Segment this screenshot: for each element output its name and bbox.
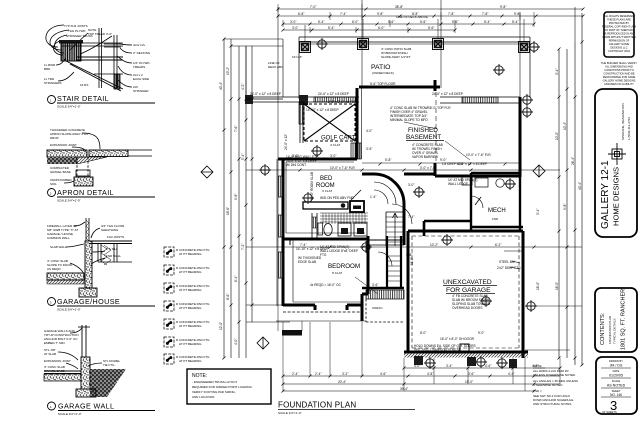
contents box [595, 288, 637, 352]
svg-text:7'-0": 7'-0" [310, 5, 316, 9]
svg-text:SCALE 3/4"=1'-0": SCALE 3/4"=1'-0" [58, 412, 82, 416]
svg-text:5'-6": 5'-6" [452, 20, 458, 24]
copyright box [602, 12, 637, 57]
svg-text:JM / DS: JM / DS [610, 364, 623, 368]
svg-text:9' FLAT: 9' FLAT [332, 271, 342, 275]
svg-text:1'-4": 1'-4" [370, 195, 376, 199]
bottom dimension lines [282, 364, 562, 393]
svg-text:LINE OF DECK ABOVE: LINE OF DECK ABOVE [396, 15, 428, 19]
svg-text:AT PT BEARING: AT PT BEARING [179, 288, 202, 292]
svg-text:5'-4": 5'-4" [318, 20, 324, 24]
svg-text:5'-4": 5'-4" [512, 20, 518, 24]
svg-text:TYP FLR JOISTS: TYP FLR JOISTS [64, 24, 88, 28]
svg-text:DRAWN BY: DRAWN BY [609, 359, 623, 363]
unexc small [355, 277, 404, 322]
svg-text:REQUIRED FOR GIRDER POINT LOAD: REQUIRED FOR GIRDER POINT LOADING. [192, 385, 253, 389]
svg-text:AS NOTED: AS NOTED [607, 384, 626, 388]
svg-text:AT PT BEARING: AT PT BEARING [179, 306, 202, 310]
svg-text:TREADS: TREADS [133, 65, 145, 69]
svg-text:SCALE 1/4"=1'-0": SCALE 1/4"=1'-0" [278, 411, 302, 415]
svg-text:9'-8": 9'-8" [234, 194, 238, 200]
svg-text:24'-0" x 12": 24'-0" x 12" [284, 134, 288, 150]
svg-text:GALLERY 12-1: GALLERY 12-1 [600, 160, 611, 229]
svg-text:40'-4": 40'-4" [219, 82, 223, 90]
svg-text:4x4x LVL: 4x4x LVL [133, 43, 146, 47]
svg-text:SLAB WALL: SLAB WALL [50, 245, 67, 249]
bedroom upper [259, 102, 368, 306]
svg-text:5'-8": 5'-8" [385, 158, 391, 162]
svg-text:16"x16": 16"x16" [292, 55, 302, 59]
svg-text:6'-2": 6'-2" [495, 243, 501, 247]
svg-text:AND STRUCTURAL NOTES: AND STRUCTURAL NOTES [533, 402, 571, 406]
title garage/house [48, 298, 56, 306]
svg-text:SLOPE AWAY 1/4"/FT: SLOPE AWAY 1/4"/FT [381, 55, 411, 59]
svg-text:ALL RIGHTS RESERVED: ALL RIGHTS RESERVED [604, 14, 634, 18]
svg-text:3'-4": 3'-4" [446, 364, 452, 368]
svg-text:FOUNDATION PLAN: FOUNDATION PLAN [608, 316, 612, 344]
svg-text:2'-4": 2'-4" [315, 372, 321, 376]
svg-text:SPOKANE, WASHINGTON: SPOKANE, WASHINGTON [621, 103, 625, 140]
svg-text:11'-6": 11'-6" [410, 257, 414, 265]
svg-text:13'-2": 13'-2" [226, 67, 230, 75]
svg-text:RESPONSIBLE FOR SAME: RESPONSIBLE FOR SAME [603, 75, 636, 79]
svg-text:OF SHEETS: OF SHEETS [602, 410, 617, 414]
svg-text:9'-0": 9'-0" [478, 331, 484, 335]
svg-text:NOTE:: NOTE: [533, 364, 542, 368]
svg-text:1801 SQ. FT. RANCHER: 1801 SQ. FT. RANCHER [621, 289, 627, 350]
svg-text:GARAGE/HOUSE: GARAGE/HOUSE [57, 297, 120, 306]
deck patio outline [246, 0, 575, 99]
section diamonds [201, 165, 545, 349]
svg-text:NO. 146: NO. 146 [610, 393, 622, 397]
svg-text:SCALE 3/4"=1'-0": SCALE 3/4"=1'-0" [57, 308, 81, 312]
svg-text:3'-0": 3'-0" [408, 183, 414, 187]
svg-text:(UNDER DECK): (UNDER DECK) [372, 71, 394, 75]
logo firm box [595, 89, 637, 237]
garage slab band [47, 273, 84, 280]
svg-text:3'-2": 3'-2" [342, 372, 348, 376]
svg-text:PROTECTED BY: PROTECTED BY [609, 21, 629, 25]
svg-text:12'-0": 12'-0" [219, 322, 223, 330]
garage wall detail 4 [44, 325, 155, 416]
svg-text:DESIGNS LLC: DESIGNS LLC [610, 46, 627, 50]
svg-text:NOTE:: NOTE: [192, 373, 207, 379]
svg-text:0'-0" x 7'-6": 0'-0" x 7'-6" [420, 166, 436, 170]
svg-text:APRON DETAIL: APRON DETAIL [57, 188, 114, 197]
svg-text:EACH SIDE: EACH SIDE [133, 77, 149, 81]
svg-text:7'-4": 7'-4" [300, 243, 306, 247]
title apron detail [48, 189, 56, 197]
svg-text:4' FLAT: 4' FLAT [330, 143, 340, 147]
svg-text:26'-4": 26'-4" [571, 157, 575, 165]
svg-text:STAIR DETAIL: STAIR DETAIL [57, 94, 109, 103]
garage wall footing [81, 357, 90, 389]
svg-text:P.T. SILL: P.T. SILL [106, 247, 118, 251]
svg-text:COPYRIGHT 2004: COPYRIGHT 2004 [608, 49, 630, 53]
svg-text:2'-6" x 2'-6" x 8 FLR: 2'-6" x 2'-6" x 8 FLR [328, 100, 357, 104]
svg-text:19'-0": 19'-0" [465, 380, 473, 384]
stairs center [362, 174, 435, 288]
svg-text:COMMON WALL: COMMON WALL [47, 236, 70, 240]
svg-text:20'-4": 20'-4" [338, 380, 346, 384]
deck post pads [300, 42, 311, 53]
svg-text:2" DECKING: 2" DECKING [133, 51, 151, 55]
svg-text:GALLERY HOME: GALLERY HOME [609, 42, 630, 46]
svg-text:EMBED 7" MIN: EMBED 7" MIN [44, 341, 65, 345]
svg-text:BE REPRODUCED IN ANY: BE REPRODUCED IN ANY [603, 32, 635, 36]
svg-text:4'-6": 4'-6" [380, 372, 386, 376]
svg-text:DATE: DATE [613, 369, 620, 373]
svg-text:GARAGE WALL: GARAGE WALL [58, 402, 114, 411]
svg-text:8'-6": 8'-6" [226, 294, 230, 300]
svg-text:7'-6": 7'-6" [234, 126, 238, 132]
svg-text:8'-0": 8'-0" [420, 331, 426, 335]
note box left [187, 369, 271, 404]
svg-text:SCALE 3/4"=1'-0": SCALE 3/4"=1'-0" [57, 105, 81, 109]
apron slab [47, 150, 87, 157]
north wall w window [245, 82, 520, 110]
svg-text:7'-0" x 12" x 8 DEEP: 7'-0" x 12" x 8 DEEP [458, 162, 487, 166]
svg-text:10'-0" x 7'-6" FLR: 10'-0" x 7'-6" FLR [330, 166, 355, 170]
svg-text:10'-0": 10'-0" [555, 132, 559, 140]
svg-text:6'-0": 6'-0" [378, 26, 384, 30]
stair detail 1 [44, 24, 155, 109]
svg-text:9'-8": 9'-8" [563, 204, 567, 210]
top dimension lines [277, 4, 585, 33]
svg-text:FLR JOISTS: FLR JOISTS [107, 235, 124, 239]
svg-text:FOUNDATION PLAN: FOUNDATION PLAN [278, 401, 356, 410]
svg-text:PATIO: PATIO [371, 64, 390, 71]
svg-text:SOIL: SOIL [50, 182, 57, 186]
svg-text:3'-0": 3'-0" [290, 20, 296, 24]
svg-text:MECH: MECH [488, 208, 506, 214]
svg-text:EXPANSION JOINT: EXPANSION JOINT [50, 143, 77, 147]
svg-text:HOME DESIGNS: HOME DESIGNS [612, 167, 621, 226]
svg-text:1 (509) 413-2762: 1 (509) 413-2762 [627, 117, 631, 140]
svg-text:4'-0": 4'-0" [366, 129, 372, 133]
garage walls [404, 209, 582, 358]
svg-text:WALL LEDGE: WALL LEDGE [448, 182, 468, 186]
svg-text:AS REQD: AS REQD [47, 267, 61, 271]
svg-text:STRINGERS: STRINGERS [44, 81, 62, 85]
svg-text:BED: BED [320, 176, 333, 182]
svg-text:GALLERY HOME DESIGNS: GALLERY HOME DESIGNS [603, 79, 636, 83]
svg-text:4'-2": 4'-2" [241, 84, 245, 90]
interior dim string [246, 99, 582, 322]
svg-text:10'-4": 10'-4" [563, 122, 567, 130]
svg-text:TYPICAL DETAILS: TYPICAL DETAILS [613, 318, 617, 344]
svg-text:3'-0": 3'-0" [106, 32, 112, 36]
apron detail 2 [47, 128, 155, 203]
svg-text:TOP TREAD: TOP TREAD [88, 32, 106, 36]
stair diagonal stringers [66, 61, 123, 91]
survey markers top [316, 38, 328, 50]
svg-text:EDGE SLAB: EDGE SLAB [298, 260, 316, 264]
svg-text:4'-6": 4'-6" [485, 364, 491, 368]
svg-text:3'-4": 3'-4" [555, 69, 559, 75]
svg-text:5'-4": 5'-4" [328, 26, 334, 30]
svg-text:CONSTRUCTION AND BE: CONSTRUCTION AND BE [603, 72, 634, 76]
sheet box [596, 357, 637, 414]
svg-text:5'-6": 5'-6" [388, 20, 394, 24]
svg-text:AND LOCATION.: AND LOCATION. [192, 395, 215, 399]
mech room [448, 162, 523, 230]
svg-text:FND: FND [492, 217, 499, 221]
title stair detail [48, 96, 56, 104]
svg-text:STEEL BM: STEEL BM [499, 260, 515, 264]
foundation plan title [278, 401, 415, 416]
svg-text:CONDITIONS PRIOR TO: CONDITIONS PRIOR TO [604, 68, 633, 72]
svg-text:9'-8": 9'-8" [514, 12, 520, 16]
svg-text:THE BUILDER SHALL VERIFY: THE BUILDER SHALL VERIFY [601, 61, 637, 65]
svg-text:VAPOR BARRIER: VAPOR BARRIER [412, 155, 439, 159]
disclaimer text [601, 61, 637, 86]
patio texts [268, 15, 428, 69]
svg-text:3'-0": 3'-0" [330, 154, 336, 158]
svg-text:4'-4": 4'-4" [508, 372, 514, 376]
apron footing [74, 177, 93, 186]
bedroom lower [276, 99, 372, 336]
svg-text:DROP: DROP [50, 136, 59, 140]
svg-text:GOLF CART: GOLF CART [321, 136, 356, 142]
svg-text:DECK ABV: DECK ABV [268, 65, 283, 69]
note right [533, 364, 578, 406]
svg-text:FND WALL: FND WALL [106, 254, 121, 258]
garage/house floor line [89, 241, 132, 244]
svg-text:BRD: BRD [44, 67, 51, 71]
svg-text:3'-4": 3'-4" [536, 209, 540, 215]
svg-text:3'-6": 3'-6" [366, 147, 372, 151]
svg-text:OVERHEAD DOORS: OVERHEAD DOORS [452, 306, 482, 310]
svg-text:5'-6": 5'-6" [420, 20, 426, 24]
svg-text:16 RS: 16 RS [80, 83, 88, 87]
svg-text:FEDERAL COPYRIGHT LAW: FEDERAL COPYRIGHT LAW [602, 25, 637, 29]
garage wall slab [44, 371, 81, 374]
svg-text:10'-0" x 7'-6" FLR: 10'-0" x 7'-6" FLR [466, 153, 491, 157]
svg-text:FORM WITHOUT WRITTEN: FORM WITHOUT WRITTEN [603, 35, 636, 39]
svg-text:EXPANSION JOINT: EXPANSION JOINT [44, 359, 71, 363]
svg-text:2'-4": 2'-4" [292, 372, 298, 376]
svg-text:24'-0" x 12" x 8 DEEP: 24'-0" x 12" x 8 DEEP [250, 92, 281, 96]
svg-text:W/ 2#4 CONT: W/ 2#4 CONT [286, 163, 306, 167]
svg-text:FND =: FND = [533, 389, 542, 393]
svg-text:6'-0": 6'-0" [352, 20, 358, 24]
svg-text:OTHERWISE NOTED: OTHERWISE NOTED [533, 383, 563, 387]
svg-text:4x REQD = 16'-0" OC: 4x REQD = 16'-0" OC [310, 283, 342, 287]
earth hatch wedge [90, 369, 126, 397]
svg-text:TIE FTG: TIE FTG [103, 363, 115, 367]
svg-text:AT PT BEARING: AT PT BEARING [179, 359, 202, 363]
svg-text:SEE 2/SD-1 SIMPSON STHD14: SEE 2/SD-1 SIMPSON STHD14 [414, 348, 460, 352]
svg-text:ALL DIMENSIONS AND: ALL DIMENSIONS AND [605, 65, 633, 69]
garage door pads [283, 322, 560, 391]
svg-text:4' FLAT: 4' FLAT [322, 189, 332, 193]
svg-text:AT PT BEARING: AT PT BEARING [179, 252, 202, 256]
garage/house detail 3 [47, 218, 155, 312]
svg-text:SHEATHING: SHEATHING [101, 228, 119, 232]
svg-text:16'-0": 16'-0" [555, 282, 559, 290]
svg-text:BEDROOM: BEDROOM [328, 263, 360, 270]
svg-text:UNLESS OTHERWISE NOTED: UNLESS OTHERWISE NOTED [533, 373, 576, 377]
svg-text:16'-0" x 8'-0" OH DOOR: 16'-0" x 8'-0" OH DOOR [440, 337, 475, 341]
golf cart room [300, 88, 362, 159]
svg-text:6'-8": 6'-8" [298, 12, 304, 16]
svg-text:FOR GARAGE: FOR GARAGE [446, 287, 491, 294]
svg-text:UNEXCAVATED: UNEXCAVATED [443, 279, 492, 286]
svg-text:24'-6" x 12" x 8 DEEP: 24'-6" x 12" x 8 DEEP [432, 92, 463, 96]
svg-text:AT PT BEARING: AT PT BEARING [179, 342, 202, 346]
svg-text:3'-6": 3'-6" [468, 372, 474, 376]
svg-text:7'-4": 7'-4" [340, 12, 346, 16]
left dimension lines [219, 38, 283, 360]
svg-text:STRINGER: STRINGER [133, 89, 149, 93]
patio label [371, 64, 394, 75]
svg-text:7'-8": 7'-8" [482, 12, 488, 16]
svg-text:AT PT BEARING: AT PT BEARING [179, 270, 202, 274]
svg-text:24'-6" x 12" x 8 DEEP: 24'-6" x 12" x 8 DEEP [318, 92, 349, 96]
svg-text:MINIMAL SLOPE TO MFD: MINIMAL SLOPE TO MFD [390, 118, 428, 122]
svg-text:W/D ON PED ABV FND: W/D ON PED ABV FND [320, 196, 355, 200]
svg-text:NO PART OF THEM MAY: NO PART OF THEM MAY [604, 28, 634, 32]
svg-text:9'-8": 9'-8" [377, 12, 383, 16]
svg-text:4'-0": 4'-0" [234, 339, 238, 345]
svg-text:BASEMENT: BASEMENT [406, 134, 441, 141]
legend pad stack [164, 247, 210, 364]
stair stringer hatch block [59, 40, 83, 44]
svg-text:T&G PLYWD: T&G PLYWD [68, 29, 86, 33]
svg-text:SCALE: SCALE [612, 379, 621, 383]
svg-text:5'-6" TOP FLOOR: 5'-6" TOP FLOOR [370, 82, 396, 86]
wall house right-bottom [435, 175, 520, 178]
svg-text:3'-0": 3'-0" [292, 26, 298, 30]
svg-text:9'-8": 9'-8" [500, 5, 506, 9]
svg-text:ASSUMES NO LIABILITY: ASSUMES NO LIABILITY [604, 82, 634, 86]
svg-text:7'-8": 7'-8" [448, 12, 454, 16]
svg-text:01/20/05: 01/20/05 [609, 374, 623, 378]
svg-text:6'-4": 6'-4" [234, 276, 238, 282]
svg-text:UNEXC.: UNEXC. [372, 306, 384, 310]
svg-text:18'-6": 18'-6" [226, 207, 230, 215]
svg-text:- ENGINEERED TRUSS LAYOUT: - ENGINEERED TRUSS LAYOUT [192, 380, 237, 384]
svg-text:4'-8": 4'-8" [427, 372, 433, 376]
svg-text:7'-2": 7'-2" [241, 244, 245, 250]
svg-text:14'-10" x 12" x 8 DEEP: 14'-10" x 12" x 8 DEEP [306, 108, 339, 112]
svg-text:AT SLAB: AT SLAB [44, 352, 56, 356]
svg-text:0'-0" TOP FLR: 0'-0" TOP FLR [430, 106, 451, 110]
svg-text:3'-6": 3'-6" [372, 283, 378, 287]
svg-text:VERIFY FOOTING PAD SIZING,: VERIFY FOOTING PAD SIZING, [192, 390, 236, 394]
garage/house footing [85, 241, 92, 288]
svg-text:5'-4": 5'-4" [241, 154, 245, 160]
svg-text:10'-2": 10'-2" [430, 243, 438, 247]
svg-text:5'-6": 5'-6" [428, 26, 434, 30]
right dimension lines [555, 13, 584, 367]
title garage wall [48, 402, 56, 410]
svg-text:16'-0": 16'-0" [536, 282, 540, 290]
svg-text:PERMISSION OF: PERMISSION OF [609, 39, 630, 43]
bath fixtures [302, 190, 368, 257]
svg-text:SCALE 3/4"=1'-0": SCALE 3/4"=1'-0" [57, 199, 81, 203]
logo mark [608, 143, 626, 165]
svg-text:CONTENTS:: CONTENTS: [600, 312, 606, 345]
svg-text:2'x2" DEEP FTG: 2'x2" DEEP FTG [497, 266, 521, 270]
svg-text:THESE PLANS ARE: THESE PLANS ARE [607, 18, 631, 22]
svg-text:3'-0": 3'-0" [292, 154, 298, 158]
svg-text:GRAVEL BASE: GRAVEL BASE [50, 170, 71, 174]
svg-text:5'-4": 5'-4" [484, 20, 490, 24]
finished basement [366, 106, 491, 166]
svg-text:38'-8": 38'-8" [395, 5, 403, 9]
svg-text:14'-10" x 12" x 8 DEEP: 14'-10" x 12" x 8 DEEP [296, 247, 329, 251]
svg-text:40'-4": 40'-4" [578, 182, 582, 190]
svg-text:AT PT BEARING: AT PT BEARING [179, 324, 202, 328]
main right wall [519, 97, 522, 177]
